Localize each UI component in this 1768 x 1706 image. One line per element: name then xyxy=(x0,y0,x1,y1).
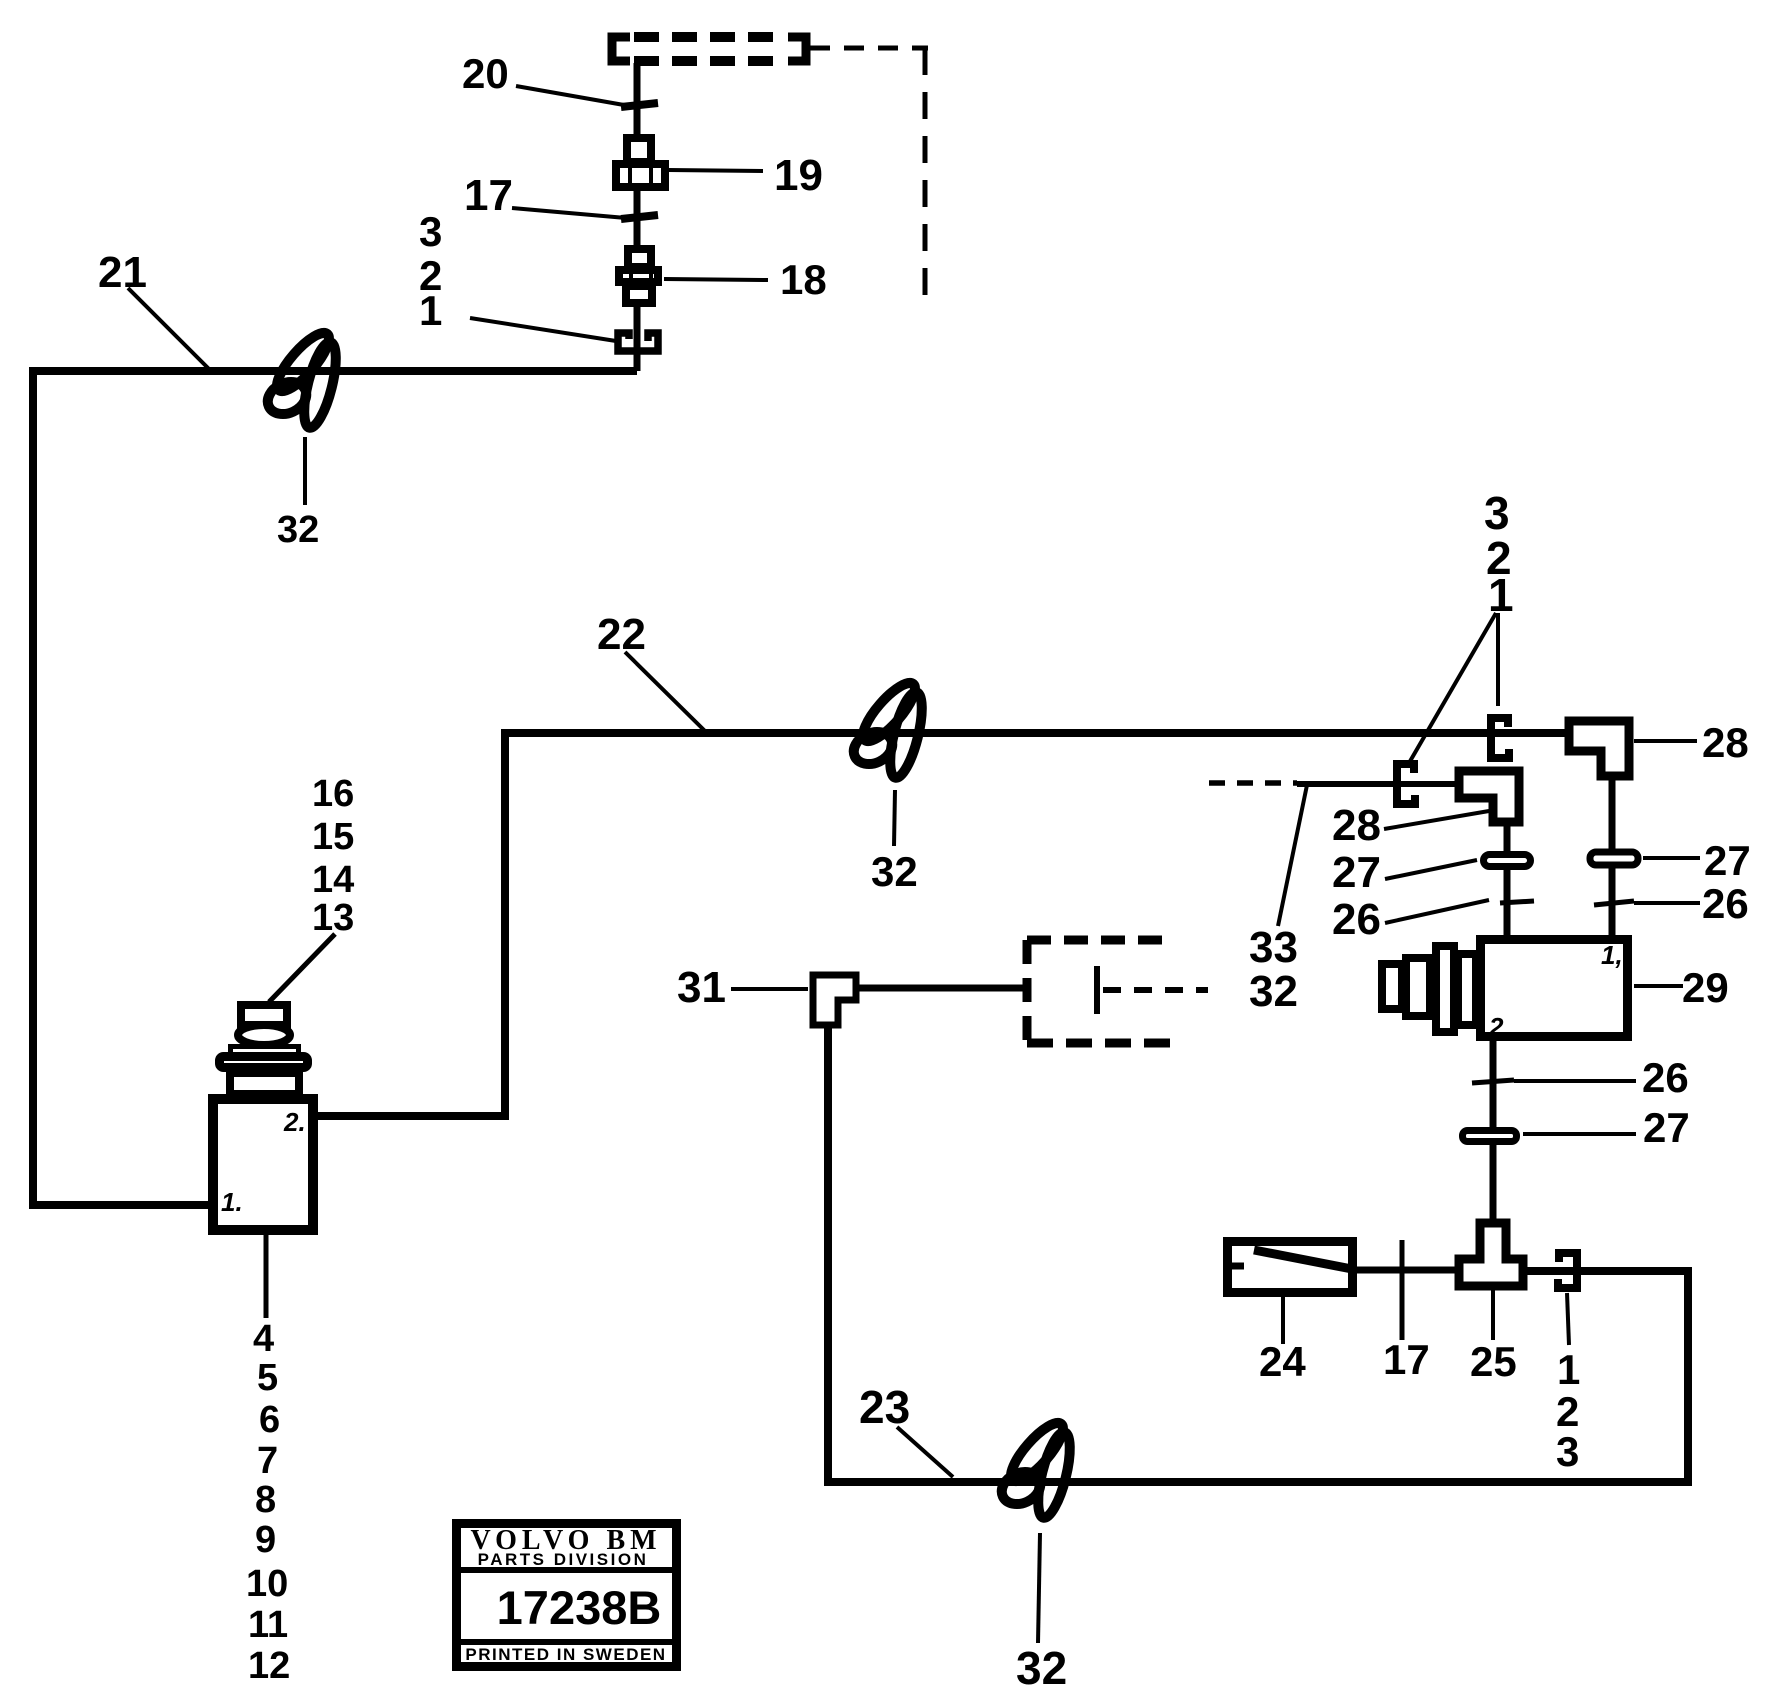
leader 20 xyxy=(516,86,624,105)
dashed box bottom edge xyxy=(1027,1039,1180,1048)
dashed pipe top box top edge xyxy=(634,32,786,42)
svg-text:6: 6 xyxy=(259,1399,280,1441)
svg-text:29: 29 xyxy=(1682,964,1729,1011)
check valve 24 xyxy=(1227,1242,1353,1293)
leader 32 xyxy=(303,437,307,505)
leader 23 xyxy=(897,1427,953,1477)
leader 27 bottom xyxy=(1523,1132,1636,1136)
tee 25 xyxy=(1459,1223,1523,1286)
wire hose 21 (top horizontal + left vertical + bottom to reservoir) xyxy=(33,371,637,1205)
wire elbow 28b down xyxy=(1504,824,1511,854)
leader 1 vertical to clip 1a xyxy=(1496,613,1500,706)
tick 20 xyxy=(621,103,658,107)
svg-text:2,: 2, xyxy=(1488,1012,1511,1042)
reservoir collar band xyxy=(231,1047,299,1055)
leader 27 left xyxy=(1385,860,1477,879)
reservoir body xyxy=(213,1099,313,1230)
svg-text:3: 3 xyxy=(419,208,442,255)
leader 25 xyxy=(1491,1287,1495,1340)
svg-text:1,: 1, xyxy=(1601,940,1623,970)
leader 22 xyxy=(625,652,707,733)
svg-text:26: 26 xyxy=(1642,1054,1689,1101)
reservoir bottom leader xyxy=(264,1234,269,1318)
tick 26c xyxy=(1472,1080,1514,1083)
svg-text:25: 25 xyxy=(1470,1338,1517,1385)
dashed vertical line right xyxy=(923,48,928,310)
reservoir flange xyxy=(220,1057,308,1068)
leader 1 bottom xyxy=(1567,1293,1569,1345)
dashed line from box to corner xyxy=(810,46,928,51)
svg-text:17: 17 xyxy=(464,171,513,220)
wire tee right, corner and bottom hose 23 xyxy=(828,1026,1688,1482)
clamp 32 (on hose 22) xyxy=(849,676,929,780)
clamp 32 (on hose 23) xyxy=(997,1416,1077,1520)
Volvo BM logo box xyxy=(456,1524,677,1667)
svg-text:19: 19 xyxy=(774,151,823,200)
svg-text:28: 28 xyxy=(1702,719,1749,766)
svg-text:14: 14 xyxy=(312,859,354,901)
clamp 32 (on hose 21) xyxy=(263,326,343,430)
dashed box left edge xyxy=(1023,940,1032,1043)
svg-text:26: 26 xyxy=(1702,880,1749,927)
svg-text:32: 32 xyxy=(871,848,918,895)
svg-text:18: 18 xyxy=(780,256,827,303)
svg-text:27: 27 xyxy=(1332,848,1381,897)
reservoir neck xyxy=(230,1073,299,1094)
svg-text:1: 1 xyxy=(419,287,442,334)
clip 1a (on hose 22) xyxy=(1491,718,1509,758)
svg-text:9: 9 xyxy=(255,1519,276,1561)
wire valve down to tee xyxy=(1490,1040,1497,1224)
svg-text:PRINTED IN SWEDEN: PRINTED IN SWEDEN xyxy=(465,1645,666,1664)
svg-text:20: 20 xyxy=(462,50,509,97)
washer 27c xyxy=(1463,1131,1517,1142)
leader 17 xyxy=(512,208,626,218)
dashed box inner dashed line xyxy=(1103,987,1208,993)
washer 27b (right) xyxy=(1590,852,1638,865)
fitting 18 xyxy=(619,249,658,303)
clip 1c (open left) xyxy=(1558,1253,1577,1288)
svg-text:22: 22 xyxy=(597,610,646,659)
svg-text:7: 7 xyxy=(257,1440,278,1482)
clip 1b xyxy=(1397,764,1415,804)
elbow 31 xyxy=(813,975,856,1025)
svg-text:5: 5 xyxy=(257,1357,278,1399)
svg-text:17: 17 xyxy=(1383,1336,1430,1383)
wire hose 22 (reservoir right port up and across) xyxy=(317,733,1565,1116)
leader 33/32 xyxy=(1278,785,1307,926)
leader 19 xyxy=(668,170,763,171)
leader 31 xyxy=(731,987,808,991)
dashed box inner tick xyxy=(1094,966,1100,1014)
leader 32 xyxy=(894,790,895,846)
leader 26 right xyxy=(1634,901,1700,905)
sensor spacer xyxy=(1458,954,1476,1025)
dashed pipe top box right bracket xyxy=(788,37,806,61)
svg-text:26: 26 xyxy=(1332,895,1381,944)
svg-text:33: 33 xyxy=(1249,923,1298,972)
wire left of tee xyxy=(1356,1267,1460,1274)
wire washer 27b to valve xyxy=(1609,864,1616,938)
leader 28a xyxy=(1634,739,1697,743)
leader 1 to clip xyxy=(470,318,616,341)
elbow 28a xyxy=(1569,721,1629,776)
dashed hose 33 xyxy=(1209,780,1297,786)
leader 13 xyxy=(269,934,335,1002)
reservoir cap 13 xyxy=(241,1005,287,1025)
wire elbow 31 to dashed box xyxy=(859,985,1024,992)
svg-text:PARTS DIVISION: PARTS DIVISION xyxy=(478,1550,649,1569)
sensor disc xyxy=(1436,946,1454,1032)
svg-text:1.: 1. xyxy=(221,1187,243,1217)
svg-text:17238B: 17238B xyxy=(497,1581,662,1634)
sensor tip xyxy=(1382,964,1402,1009)
fitting 19 xyxy=(616,138,665,187)
svg-text:31: 31 xyxy=(677,963,726,1012)
leader 28b xyxy=(1384,811,1489,829)
leader 1 diagonal to clip 1b xyxy=(1409,613,1496,763)
valve 29 body xyxy=(1481,940,1628,1037)
wire elbow 28a down xyxy=(1609,778,1616,852)
svg-text:4: 4 xyxy=(253,1318,274,1360)
wire washer 27a to valve xyxy=(1504,866,1511,938)
leader 29 xyxy=(1634,984,1683,988)
svg-text:10: 10 xyxy=(246,1563,288,1605)
reservoir ball xyxy=(238,1025,290,1045)
svg-text:28: 28 xyxy=(1332,801,1381,850)
svg-text:16: 16 xyxy=(312,773,354,815)
hose 33 solid part xyxy=(1297,781,1455,787)
svg-text:27: 27 xyxy=(1643,1104,1690,1151)
tick 26a (left) xyxy=(1500,901,1534,903)
dashed pipe top box bottom edge xyxy=(634,56,786,66)
svg-text:21: 21 xyxy=(98,248,147,297)
leader 24 xyxy=(1281,1294,1285,1344)
leader 21 xyxy=(128,288,210,370)
svg-text:15: 15 xyxy=(312,816,354,858)
svg-text:32: 32 xyxy=(1249,967,1298,1016)
dashed pipe top box left bracket xyxy=(612,37,630,61)
svg-text:3: 3 xyxy=(1556,1428,1579,1475)
svg-text:12: 12 xyxy=(248,1645,290,1687)
retaining clip 1 (top, open up) xyxy=(618,333,658,351)
svg-text:27: 27 xyxy=(1704,837,1751,884)
tick 26b (right) xyxy=(1594,901,1634,905)
svg-text:13: 13 xyxy=(312,897,354,939)
washer 27a (left) xyxy=(1484,855,1531,867)
svg-text:11: 11 xyxy=(248,1604,288,1646)
sensor nut xyxy=(1406,958,1430,1016)
leader 27 right xyxy=(1643,856,1700,860)
leader 26 bottom xyxy=(1514,1079,1636,1083)
svg-text:2.: 2. xyxy=(283,1107,306,1137)
svg-text:23: 23 xyxy=(859,1381,910,1433)
svg-text:8: 8 xyxy=(255,1479,276,1521)
tick 17b xyxy=(1400,1240,1405,1340)
svg-text:32: 32 xyxy=(1016,1642,1067,1694)
tick 17 xyxy=(621,215,658,219)
svg-text:1: 1 xyxy=(1488,569,1514,621)
leader 26 left xyxy=(1385,900,1489,923)
elbow 28b xyxy=(1459,771,1519,822)
svg-text:1: 1 xyxy=(1557,1346,1580,1393)
wire top vertical (dashed box to hose 21) xyxy=(634,63,641,371)
leader 18 xyxy=(664,279,768,280)
dashed box (brake light switch) top edge xyxy=(1027,936,1172,945)
leader 32 bottom xyxy=(1038,1533,1040,1643)
svg-text:24: 24 xyxy=(1259,1338,1306,1385)
svg-text:32: 32 xyxy=(277,509,319,551)
